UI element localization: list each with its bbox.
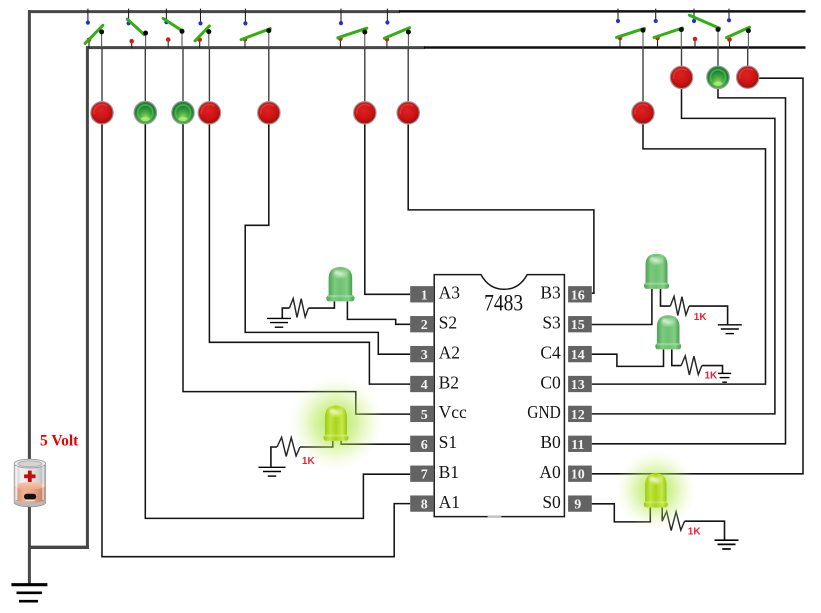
wire D5 to pin 3 A2 [245, 123, 410, 355]
svg-text:Vcc: Vcc [439, 402, 467, 422]
op-amp U1 7483 IC body [434, 275, 564, 517]
wire +5V top bus (gray segment) [28, 10, 400, 13]
ground (R4) [718, 373, 731, 382]
svg-text:A2: A2 [439, 342, 460, 362]
svg-text:14: 14 [571, 348, 585, 363]
label pin 5 Vcc [439, 402, 467, 422]
wire R3 to ground [689, 306, 728, 324]
battery BAT1 5 Volt [14, 459, 46, 507]
LED indicator D7 (red) [397, 102, 419, 124]
label pin 11 B0 [540, 432, 561, 452]
wire D2 to pin 7 B1 [145, 123, 410, 519]
svg-text:1K: 1K [688, 527, 702, 538]
wire D3 to pin 5 Vcc [183, 123, 410, 415]
label pin 13 C0 [540, 372, 561, 392]
wire pin 15 S3 to S3 LED left leg [592, 289, 652, 325]
LED S2 (pin2, green, off) [326, 267, 354, 301]
wire S3 LED right leg to resistor R3 [661, 289, 671, 306]
wire S1 LED right leg to pin 6 S1 [341, 441, 410, 444]
switch SW3 [163, 9, 184, 49]
wire 0V ground bus (gray segment) [86, 46, 425, 49]
label pin 14 C4 [540, 342, 561, 362]
wire battery negative to 0V return [28, 546, 89, 549]
wire D6 to pin 1 A3 [365, 123, 410, 295]
svg-text:3: 3 [421, 348, 428, 363]
wire switch pole to D8 [642, 47, 644, 103]
pin 11 box [568, 436, 592, 453]
LED S3 (pin15, green, off) [644, 254, 669, 289]
wire D10 to pin 11 B0 [592, 87, 786, 444]
label R2 1K [302, 456, 316, 467]
wire D8 to pin 13 C0 [592, 123, 766, 385]
LED indicator D5 (red) [258, 102, 280, 124]
switch SW4 [195, 9, 211, 49]
ground (R5) [715, 540, 739, 549]
svg-text:7483: 7483 [484, 291, 523, 316]
switch SW11 [727, 9, 751, 49]
wire switch pole to D9 [681, 47, 683, 67]
LED C4 (pin14, green, off) [655, 315, 681, 349]
label pin 12 GND [527, 402, 561, 422]
LED indicator D8 (red) [632, 102, 654, 124]
resistor R4 [681, 356, 702, 375]
label pin 3 A2 [439, 342, 460, 362]
wire D11 to pin 10 A0 [592, 78, 803, 474]
LED S0 (pin9, green, lit) [644, 473, 668, 507]
label pin 10 A0 [539, 462, 561, 482]
wire pin 14 C4 to C4 LED left leg [592, 349, 664, 366]
label R5 1K [688, 527, 702, 538]
pin 2 box [410, 316, 434, 333]
wire switch pole to D4 [208, 47, 210, 103]
svg-text:1K: 1K [705, 371, 719, 382]
label pin 15 S3 [542, 313, 561, 333]
wire battery positive riser (left vertical) [28, 10, 31, 584]
wire pin 9 S0 to S0 LED left leg [592, 504, 651, 522]
svg-text:A3: A3 [439, 283, 461, 303]
wire 0V return vertical [86, 46, 89, 547]
switch SW2 [127, 9, 149, 49]
label pin 8 A1 [439, 492, 460, 512]
switch SW9 [654, 9, 684, 49]
wire R5 to ground [685, 521, 725, 539]
wire +5V top bus (black segment) [399, 10, 806, 13]
LED indicator D3 (grn) [172, 101, 194, 123]
svg-text:5: 5 [421, 408, 428, 423]
label pin 7 B1 [439, 462, 459, 482]
svg-text:B2: B2 [439, 372, 459, 392]
wire S2 LED right leg to pin 2 S2 [347, 301, 410, 324]
label R3 1K [694, 312, 708, 323]
svg-text:7: 7 [421, 468, 428, 483]
pin 14 box [568, 346, 592, 363]
pin 13 box [568, 376, 592, 393]
svg-text:A0: A0 [539, 462, 561, 482]
ground (R1) [267, 318, 291, 327]
svg-text:GND: GND [527, 402, 561, 422]
svg-text:1: 1 [421, 288, 428, 303]
wire switch pole to D7 [407, 47, 409, 103]
wire switch pole to D3 [182, 47, 184, 103]
label pin 16 B3 [540, 283, 561, 303]
label pin 1 A3 [439, 283, 461, 303]
wire R2 to ground [271, 447, 277, 467]
svg-text:2: 2 [421, 318, 428, 333]
pin 15 box [568, 316, 592, 333]
wire D1 to pin 8 A1 [102, 123, 410, 557]
svg-text:10: 10 [571, 468, 585, 483]
wire D9 to pin 12 GND [592, 87, 775, 414]
wire R1 to ground [282, 308, 289, 318]
label pin 2 S2 [439, 313, 457, 333]
pin 12 box [568, 406, 592, 423]
LED indicator D11 (red) [737, 66, 759, 88]
pin 1 box [410, 286, 434, 303]
LED indicator D4 (red) [198, 102, 220, 124]
ground (R3) [718, 325, 742, 334]
switch SW10 [689, 9, 720, 49]
svg-text:12: 12 [571, 408, 585, 423]
switch SW8 [616, 9, 646, 49]
LED indicator D10 (grn) [707, 66, 729, 88]
svg-text:B1: B1 [439, 462, 459, 482]
svg-text:5 Volt: 5 Volt [40, 432, 79, 449]
glow S1 LED [289, 376, 383, 470]
pin 9 box [568, 495, 592, 512]
pin 8 box [410, 495, 434, 512]
svg-text:11: 11 [571, 438, 584, 453]
svg-text:13: 13 [571, 378, 585, 393]
LED indicator D2 (grn) [134, 101, 156, 123]
wire D7 to pin 16 B3 [408, 123, 594, 294]
wire switch pole to D11 [747, 47, 749, 67]
svg-text:9: 9 [574, 498, 581, 513]
ground (R2) [259, 467, 286, 476]
svg-text:B0: B0 [540, 432, 561, 452]
switch SW7 [384, 9, 411, 49]
svg-text:6: 6 [421, 438, 428, 453]
LED S1 (pin6, green, lit) [324, 406, 349, 441]
resistor R3 [670, 296, 689, 315]
label R4 1K [705, 371, 719, 382]
ground (battery) [11, 585, 47, 602]
label U1 7483 [484, 291, 523, 316]
resistor R1 [289, 298, 308, 317]
wire switch pole to D10 [717, 47, 719, 67]
resistor R5 [662, 512, 684, 531]
svg-text:B3: B3 [540, 283, 561, 303]
svg-text:S2: S2 [439, 313, 457, 333]
LED indicator D9 (red) [670, 66, 692, 88]
wire D4 to pin 4 B2 [209, 123, 410, 385]
pin 5 box [410, 406, 434, 423]
svg-text:1K: 1K [694, 312, 708, 323]
wire switch pole to D5 [268, 47, 270, 103]
svg-text:C4: C4 [540, 342, 561, 362]
svg-text:A1: A1 [439, 492, 460, 512]
wire 0V ground bus (black segment) [424, 46, 806, 49]
pin 6 box [410, 436, 434, 453]
wire S1 LED left leg to resistor R2 [300, 441, 333, 447]
wire switch pole to D1 [101, 47, 103, 103]
wire R4 to ground [702, 366, 723, 373]
resistor R2 [277, 437, 300, 456]
pin 4 box [410, 376, 434, 393]
switch SW1 [85, 9, 104, 49]
label 5 Volt [40, 432, 79, 449]
pin 7 box [410, 466, 434, 483]
svg-text:15: 15 [571, 318, 585, 333]
pin 16 box [568, 286, 592, 303]
wire S0 LED right leg to resistor R5 [661, 508, 663, 522]
label pin 6 S1 [439, 432, 457, 452]
wire switch pole to D6 [364, 47, 366, 103]
svg-text:S3: S3 [542, 313, 561, 333]
svg-text:4: 4 [421, 378, 428, 393]
svg-text:C0: C0 [540, 372, 561, 392]
svg-text:S1: S1 [439, 432, 457, 452]
pin 3 box [410, 346, 434, 363]
label pin 4 B2 [439, 372, 459, 392]
wire switch pole to D2 [144, 47, 146, 103]
svg-text:8: 8 [421, 498, 428, 513]
glow S0 LED [616, 450, 696, 530]
LED indicator D1 (red) [91, 102, 113, 124]
svg-text:S0: S0 [542, 492, 561, 512]
wire C4 LED right leg to resistor R4 [672, 349, 681, 365]
pin 10 box [568, 466, 592, 483]
LED indicator D6 (red) [354, 102, 376, 124]
switch SW5 [241, 9, 271, 49]
label pin 9 S0 [542, 492, 561, 512]
wire S2 LED left leg to resistor R1 [308, 301, 334, 308]
svg-text:16: 16 [571, 288, 585, 303]
switch SW6 [338, 9, 368, 49]
